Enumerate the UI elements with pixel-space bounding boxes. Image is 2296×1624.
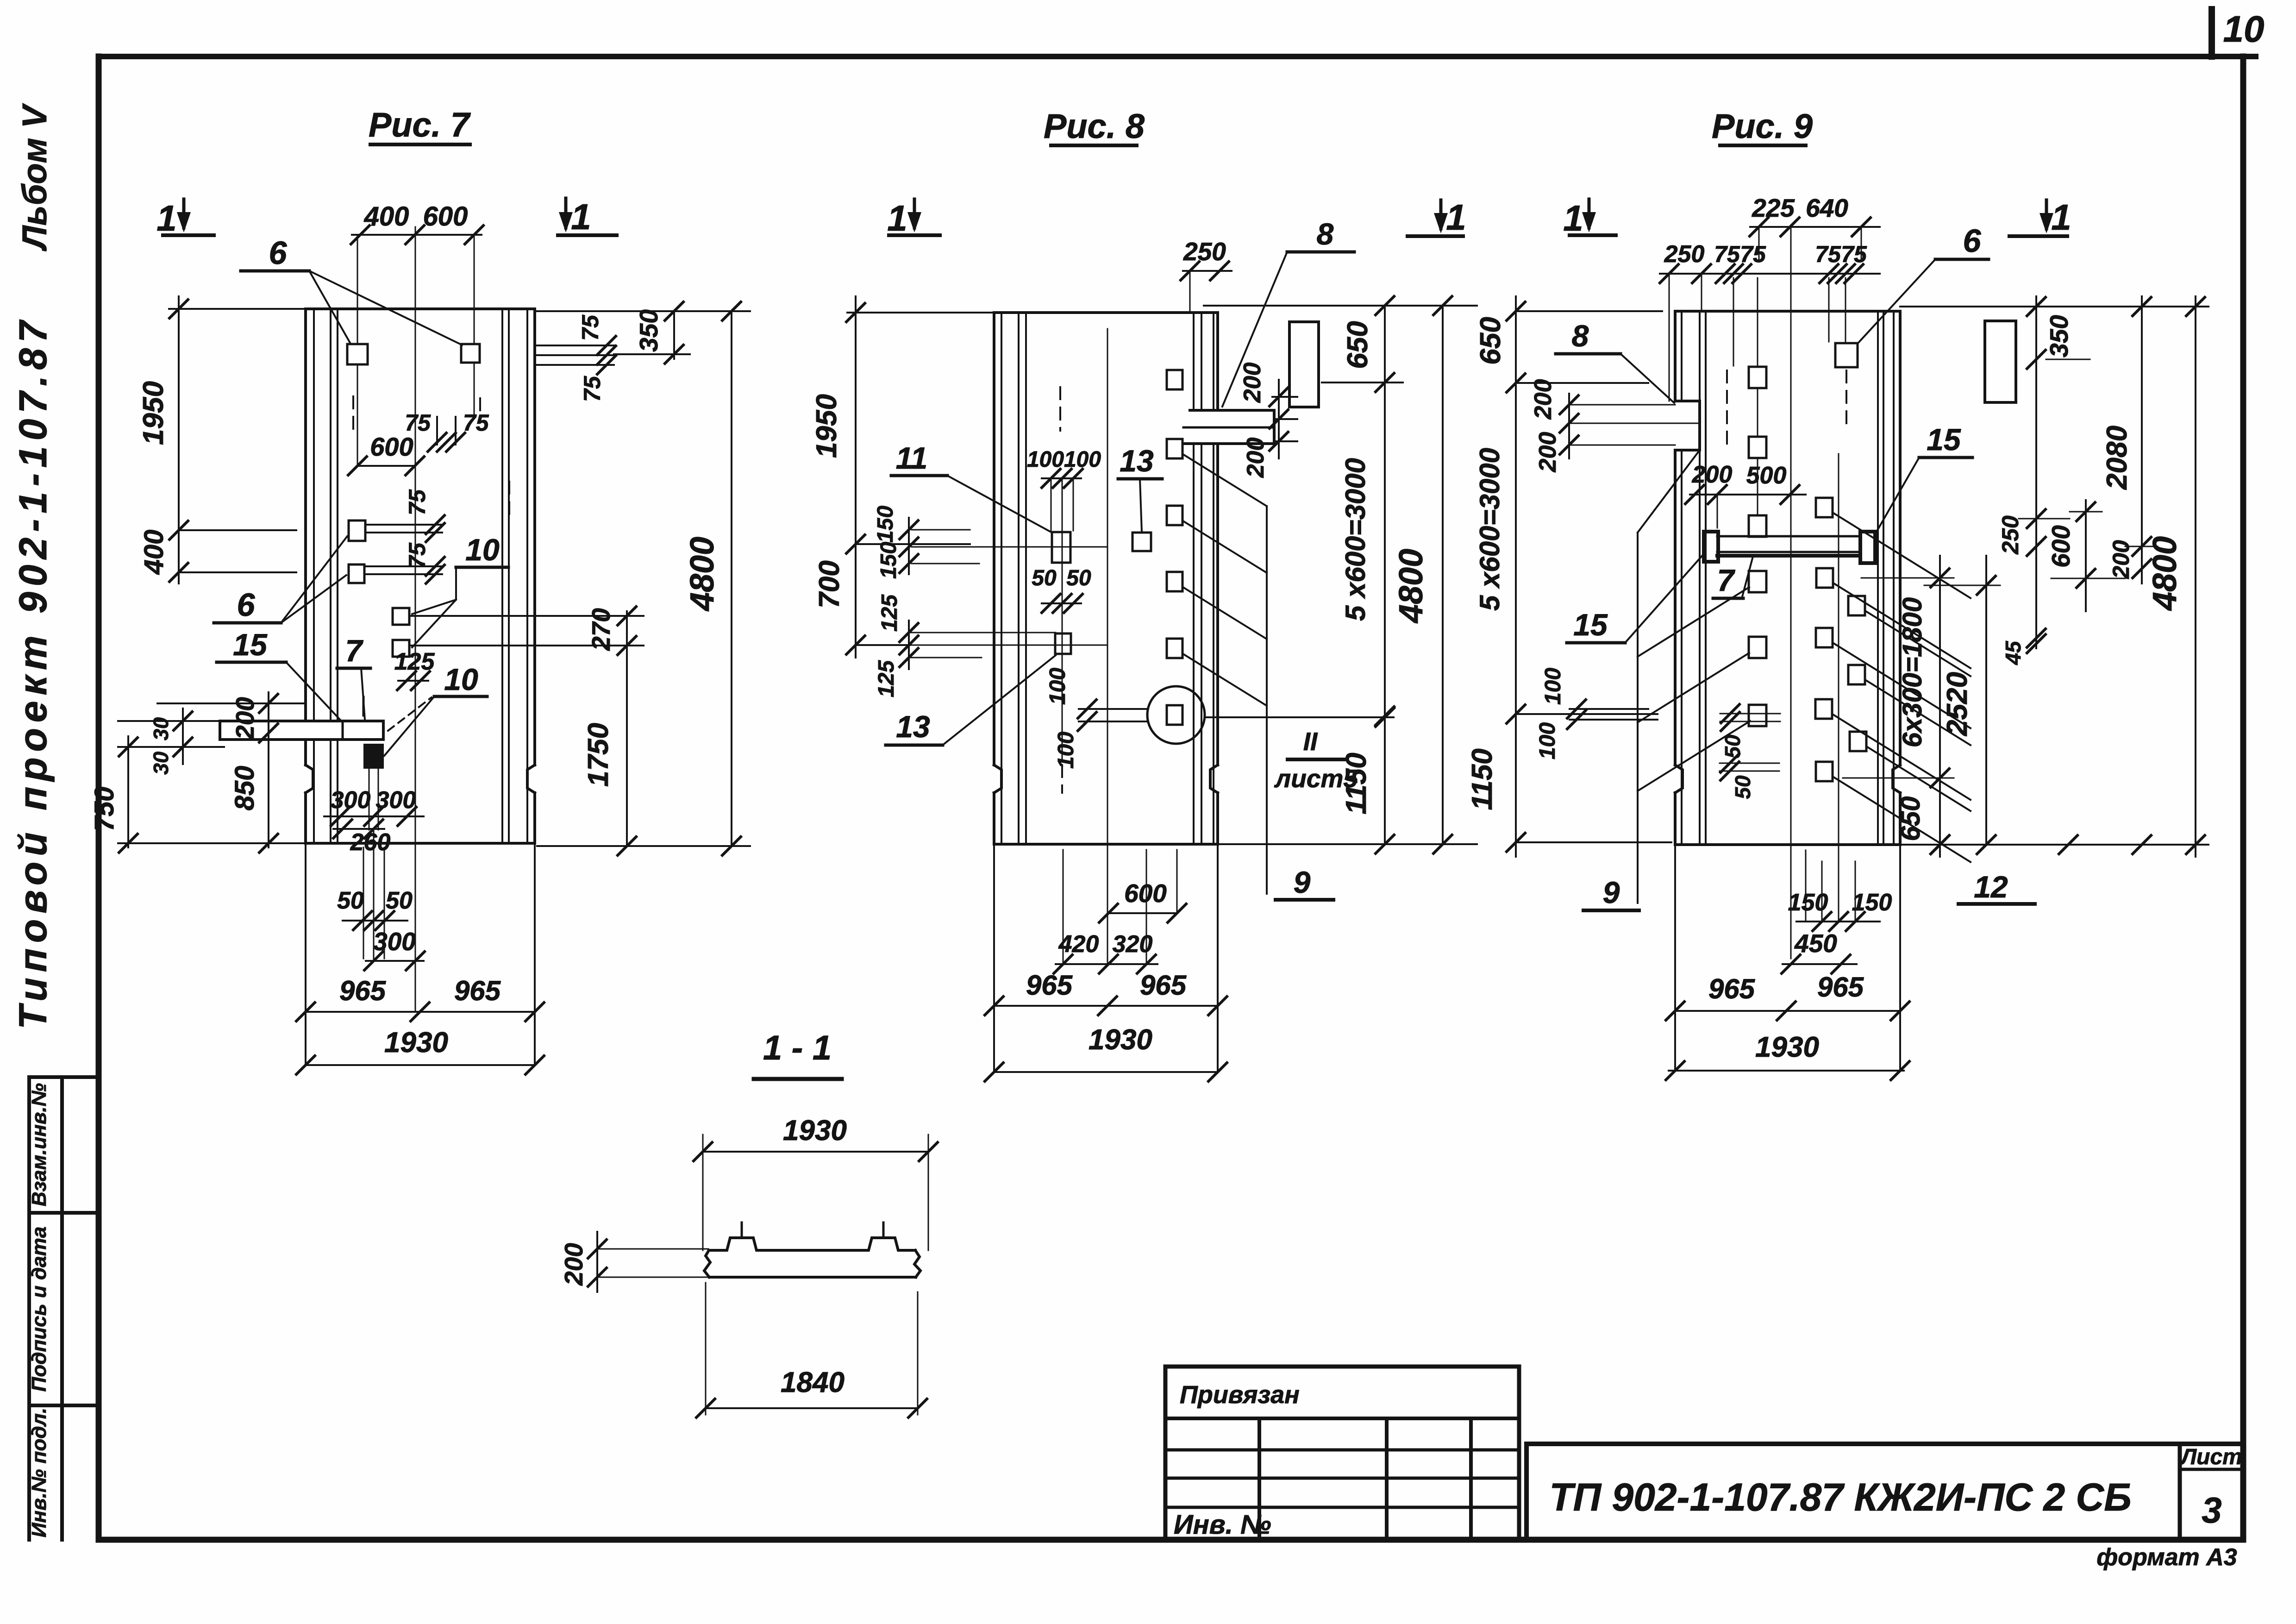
svg-text:50: 50 <box>337 887 364 914</box>
svg-text:1930: 1930 <box>783 1115 847 1147</box>
dims 200 200 at recess Ris9 <box>1568 394 1570 458</box>
svg-text:1: 1 <box>1563 198 1583 238</box>
dim 4800 Ris8 <box>1442 306 1444 844</box>
section mark 1 right Ris7 <box>564 198 568 228</box>
svg-text:10: 10 <box>465 533 500 567</box>
console axis dash <box>363 697 365 715</box>
svg-text:15: 15 <box>233 627 268 662</box>
connection bar pos.7 Ris9 <box>1717 535 1860 538</box>
svg-text:7: 7 <box>345 633 364 668</box>
svg-text:1930: 1930 <box>1089 1024 1152 1056</box>
dim 1930 section <box>702 1135 704 1250</box>
sheet frame top border <box>99 54 2256 59</box>
embed plates staircase Ris9 <box>1816 498 1833 517</box>
title block List column <box>2178 1444 2182 1540</box>
svg-text:13: 13 <box>1120 444 1153 478</box>
svg-text:965: 965 <box>1817 972 1864 1003</box>
svg-text:100: 100 <box>1045 668 1070 705</box>
svg-text:75: 75 <box>463 410 489 436</box>
svg-text:50: 50 <box>1032 566 1057 590</box>
dashed axes Ris9 <box>1726 370 1728 451</box>
svg-text:ТП 902-1-107.87 КЖ2И-ПС 2 СБ: ТП 902-1-107.87 КЖ2И-ПС 2 СБ <box>1549 1475 2131 1519</box>
svg-text:250: 250 <box>1997 515 2023 555</box>
svg-text:1840: 1840 <box>781 1367 845 1398</box>
svg-text:300: 300 <box>376 787 416 814</box>
svg-text:200: 200 <box>1239 363 1266 403</box>
svg-text:300: 300 <box>373 927 416 956</box>
slab cross-section profile <box>709 1238 915 1250</box>
dims 100 100 at circle Ris8 <box>1079 708 1147 710</box>
dim 2080 200 Ris9 <box>2141 296 2143 583</box>
sheet frame right border <box>2240 56 2246 1540</box>
svg-text:1950: 1950 <box>138 381 169 445</box>
svg-text:Подпись и дата: Подпись и дата <box>28 1227 50 1392</box>
svg-text:75: 75 <box>1841 241 1867 267</box>
svg-text:50: 50 <box>1731 775 1755 799</box>
svg-text:100: 100 <box>1535 722 1560 759</box>
svg-text:420: 420 <box>1058 931 1099 958</box>
dim 300 below panel Ris7 <box>366 960 424 962</box>
embed plate S5 <box>393 608 409 625</box>
dims 200 500 Ris9 <box>1690 494 1806 495</box>
detail circle around bottom embed <box>1147 686 1205 744</box>
panel Ris8 outline top and bottom <box>994 311 1218 314</box>
panel Ris8 right edge with console break <box>1216 313 1219 410</box>
embed black anchor plate <box>364 745 383 768</box>
svg-text:11: 11 <box>896 441 928 475</box>
embed plates right column Ris8 <box>1167 370 1182 389</box>
top dims 225 640 Ris9 <box>1750 226 1880 228</box>
svg-text:650: 650 <box>1896 796 1926 841</box>
svg-text:II: II <box>1303 727 1318 756</box>
panel Ris8 inner rib lines <box>1001 313 1002 844</box>
section mark 1 right Ris9 <box>2045 200 2048 229</box>
bottom dims 150 150 450 Ris9 <box>1805 850 1807 922</box>
embed plate S6 <box>393 640 409 657</box>
bottom extension Ris9 <box>1900 844 2208 846</box>
dim 1930 Ris7 <box>306 1064 535 1066</box>
console side plate rectangle Ris8 <box>1289 322 1319 407</box>
dims 50 50 Ris9 <box>1720 713 1780 715</box>
svg-text:600: 600 <box>423 201 468 232</box>
panel Ris9 centre extension line <box>1790 227 1792 959</box>
svg-text:650: 650 <box>1342 321 1374 369</box>
support console pos.8 on right edge <box>1190 409 1274 412</box>
svg-text:50: 50 <box>1066 566 1091 590</box>
svg-text:270: 270 <box>587 608 615 651</box>
panel Ris7 right edge with notch <box>533 309 536 765</box>
left lower dim chain 200 850 30 30 750 Ris7 <box>268 692 269 847</box>
svg-text:формат А3: формат А3 <box>2096 1544 2237 1571</box>
panel Ris8 centre extension line <box>1107 329 1108 964</box>
svg-text:1: 1 <box>156 198 176 238</box>
rebar stubs on section <box>741 1223 743 1238</box>
svg-text:30: 30 <box>149 752 173 775</box>
svg-text:75: 75 <box>405 410 431 436</box>
title block small table column lines <box>1257 1418 1261 1540</box>
dim 2520 Ris9 <box>1985 556 1987 845</box>
svg-text:6: 6 <box>237 587 256 623</box>
panel Ris7 outline top and bottom <box>306 307 535 310</box>
dim 600 Ris9 <box>2085 500 2087 611</box>
dim 6x300 1800 and 650 Ris9 <box>1939 556 1941 857</box>
sheet frame bottom border <box>99 1537 2243 1543</box>
svg-text:500: 500 <box>1746 462 1787 489</box>
svg-text:6: 6 <box>1963 223 1982 259</box>
inner dims 75 75 at S3 S4 <box>366 524 442 526</box>
svg-text:1: 1 <box>887 198 907 238</box>
right dims 350 75 75 Ris7 <box>535 310 750 312</box>
svg-text:850: 850 <box>230 766 260 811</box>
panel Ris9 inner rib lines <box>1681 311 1683 401</box>
svg-text:12: 12 <box>1974 870 2008 904</box>
panel Ris7 inner rib lines <box>313 309 315 843</box>
left dim chain 650 5x600 1150 Ris9 <box>1515 296 1517 857</box>
panel Ris9 outline top and bottom <box>1675 310 1900 313</box>
svg-text:Инв.№ подл.: Инв.№ подл. <box>28 1408 50 1537</box>
leader fan staircase to pos.12 <box>1833 513 1971 598</box>
svg-text:965: 965 <box>1140 970 1187 1001</box>
title block main box <box>1526 1444 2243 1540</box>
svg-text:15: 15 <box>1927 422 1961 457</box>
svg-text:1150: 1150 <box>1466 748 1498 810</box>
view note II list5 <box>1205 716 1394 718</box>
extension line right staircase Ris9 <box>1838 454 1839 922</box>
right chain 350 Ris9 <box>1900 306 2208 307</box>
top-right small dims 75 75 Ris7 <box>436 417 438 445</box>
svg-text:75: 75 <box>404 489 430 515</box>
svg-text:600: 600 <box>370 432 413 461</box>
svg-text:200: 200 <box>1692 461 1733 488</box>
svg-text:100: 100 <box>1541 668 1565 705</box>
embed plate mid S3 <box>349 520 365 541</box>
extension line through embed S2 <box>474 235 475 417</box>
svg-text:4800: 4800 <box>684 537 721 612</box>
svg-text:Рис. 8: Рис. 8 <box>1044 107 1145 145</box>
svg-text:600: 600 <box>2046 525 2075 568</box>
svg-text:100: 100 <box>1027 447 1064 472</box>
svg-text:1750: 1750 <box>582 723 614 787</box>
svg-text:1: 1 <box>1446 197 1466 238</box>
right dim chain 650 5x600 1150 Ris8 <box>1204 305 1477 307</box>
svg-text:700: 700 <box>813 560 845 608</box>
svg-text:1: 1 <box>2051 197 2071 238</box>
svg-text:100: 100 <box>1054 732 1078 769</box>
svg-text:Лист: Лист <box>2180 1445 2242 1469</box>
dim 270 Ris7 <box>409 615 644 617</box>
dim 200 section <box>596 1232 598 1292</box>
svg-text:150: 150 <box>1852 889 1892 916</box>
dims 200 200 at console Ris8 <box>1278 380 1280 458</box>
section mark 1 right Ris8 <box>1439 200 1443 229</box>
svg-text:4800: 4800 <box>2146 536 2183 611</box>
svg-text:350: 350 <box>634 309 663 352</box>
svg-text:75: 75 <box>579 376 605 402</box>
svg-text:1930: 1930 <box>384 1027 448 1059</box>
column axis line through embeds Ris8 <box>1062 478 1063 762</box>
dashed axis Ris8 <box>1059 387 1061 431</box>
extension line through left embeds Ris9 <box>1757 278 1758 523</box>
inner dim 600 Ris7 <box>357 465 415 467</box>
svg-text:5 х600=3000: 5 х600=3000 <box>1474 448 1505 611</box>
svg-text:45: 45 <box>2001 640 2025 665</box>
svg-text:5 х600=3000: 5 х600=3000 <box>1340 458 1371 621</box>
support console pos.7/15 <box>220 721 383 740</box>
dims 50 50 below panel Ris7 <box>363 847 364 959</box>
svg-text:Взам.инв.№: Взам.инв.№ <box>28 1083 50 1206</box>
svg-text:750: 750 <box>89 787 119 832</box>
svg-text:400: 400 <box>139 530 169 575</box>
svg-text:320: 320 <box>1113 931 1153 958</box>
leader fan from right embeds to pos.9 <box>1183 454 1267 506</box>
dims 125 125 Ris8 <box>908 621 910 669</box>
dim 250 top Ris8 <box>1183 270 1232 272</box>
svg-text:75: 75 <box>577 314 603 341</box>
top dimension 400 600 Ris7 <box>352 234 482 236</box>
bottom extension to 4800 line Ris7 <box>537 845 750 847</box>
svg-text:350: 350 <box>2045 315 2073 357</box>
embed plate mid S4 <box>349 564 364 583</box>
svg-text:150: 150 <box>873 506 898 543</box>
title block small table row lines <box>1165 1417 1519 1420</box>
svg-text:10: 10 <box>2223 8 2265 50</box>
top dims 250 75 75 75 75 Ris9 <box>1660 273 1880 275</box>
title block small table outline <box>1165 1367 1519 1540</box>
svg-text:600: 600 <box>1124 879 1167 908</box>
embed plates left column Ris9 <box>1749 367 1766 388</box>
svg-text:1950: 1950 <box>811 394 843 458</box>
dims 300 300 260 below anchor <box>369 768 370 830</box>
svg-text:225: 225 <box>1752 194 1795 222</box>
svg-text:640: 640 <box>1806 194 1848 222</box>
svg-text:2080: 2080 <box>2101 426 2133 490</box>
extension line through embed S1 <box>357 235 358 466</box>
svg-text:300: 300 <box>331 787 371 814</box>
svg-text:Типовой проект 902-1-107.87: Типовой проект 902-1-107.87 <box>11 315 55 1029</box>
svg-text:7: 7 <box>1717 563 1736 597</box>
dim 1750 Ris7 <box>626 646 628 846</box>
svg-text:Привязан: Привязан <box>1180 1381 1300 1409</box>
svg-text:10: 10 <box>444 662 478 696</box>
svg-text:965: 965 <box>454 975 501 1006</box>
dim 4800 Ris9 <box>2195 296 2196 857</box>
left dim chain 1950 400 Ris7 <box>169 308 306 310</box>
svg-text:Рис. 9: Рис. 9 <box>1712 107 1813 145</box>
side plate rectangle Ris9 <box>1985 321 2016 402</box>
embed plate 6 top-left <box>347 344 368 364</box>
svg-text:965: 965 <box>1708 973 1756 1004</box>
panel Ris7 left edge with notch <box>304 309 307 765</box>
svg-text:965: 965 <box>1026 970 1073 1001</box>
dims 150 150 Ris8 <box>908 518 910 574</box>
dims 100 100 left Ris9 <box>1570 708 1648 710</box>
panel Ris9 right edge with notch <box>1899 311 1902 765</box>
svg-text:150: 150 <box>1788 889 1828 916</box>
svg-text:75: 75 <box>404 542 430 569</box>
page number tick top right <box>2208 9 2215 56</box>
svg-text:8: 8 <box>1572 319 1589 353</box>
svg-text:Рис. 7: Рис. 7 <box>369 106 471 144</box>
svg-text:1930: 1930 <box>1755 1031 1819 1063</box>
svg-text:450: 450 <box>1794 929 1837 958</box>
svg-text:2520: 2520 <box>1941 672 1973 736</box>
dim 1930 Ris9 <box>1669 1070 1904 1072</box>
embed plate pos.11 <box>1052 532 1070 563</box>
dims 965 965 Ris7 <box>305 843 307 1065</box>
svg-text:150: 150 <box>876 542 901 579</box>
svg-text:15: 15 <box>1573 608 1608 642</box>
svg-text:200: 200 <box>559 1243 588 1286</box>
bar end plate right pos.15 <box>1860 532 1875 563</box>
svg-text:13: 13 <box>896 709 930 744</box>
embed plate 6 top-right <box>461 344 480 363</box>
dims 250 45 Ris9 <box>2027 509 2046 528</box>
svg-text:50: 50 <box>1720 734 1745 759</box>
svg-text:Инв. №: Инв. № <box>1174 1510 1271 1540</box>
svg-text:9: 9 <box>1603 875 1620 909</box>
svg-text:8: 8 <box>1317 217 1334 251</box>
svg-text:6: 6 <box>269 235 288 271</box>
bar end plate left pos.15 <box>1704 532 1718 562</box>
svg-text:250: 250 <box>1664 241 1705 268</box>
svg-text:125: 125 <box>877 594 902 632</box>
dims 965 965 Ris9 <box>1674 845 1676 1071</box>
svg-text:75: 75 <box>1714 241 1740 267</box>
leader fan left embeds to pos.9 Ris9 <box>1638 587 1749 657</box>
svg-text:75: 75 <box>1815 241 1841 267</box>
svg-text:200: 200 <box>1242 438 1269 478</box>
svg-text:9: 9 <box>1294 865 1311 899</box>
svg-text:1150: 1150 <box>1340 752 1372 814</box>
svg-text:Льбом V: Льбом V <box>15 103 54 251</box>
svg-text:200: 200 <box>1530 379 1557 420</box>
svg-text:200: 200 <box>1534 432 1561 473</box>
svg-text:6х300=1800: 6х300=1800 <box>1897 597 1927 747</box>
svg-text:1: 1 <box>571 196 591 237</box>
sheet frame left border <box>96 56 102 1540</box>
panel Ris7 centre extension line <box>415 227 416 1012</box>
dim 4800 Ris7 <box>731 311 732 846</box>
svg-text:1 - 1: 1 - 1 <box>763 1028 832 1067</box>
svg-text:4800: 4800 <box>1393 549 1430 624</box>
left margin box column lines <box>27 1077 31 1540</box>
panel Ris9 left edge with recess and notch <box>1674 311 1677 401</box>
bottom dims Ris8 <box>1063 850 1064 964</box>
embed plate pos.6 top Ris9 <box>1835 343 1858 367</box>
svg-text:250: 250 <box>1183 237 1226 266</box>
dashed axis marks Ris7 <box>352 396 354 430</box>
svg-text:400: 400 <box>364 201 409 232</box>
svg-text:125: 125 <box>874 660 899 697</box>
svg-text:650: 650 <box>1475 317 1507 364</box>
svg-text:3: 3 <box>2202 1490 2221 1530</box>
svg-text:965: 965 <box>339 975 387 1006</box>
embed plate pos.13 top <box>1132 533 1151 551</box>
embed plate lower-left Ris8 <box>1055 633 1071 654</box>
left dim chain 1950 700 Ris8 <box>847 312 994 314</box>
svg-text:50: 50 <box>386 887 413 914</box>
svg-text:75: 75 <box>1740 241 1766 267</box>
panel Ris8 left edge with notch <box>993 313 995 765</box>
dim 1840 section <box>705 1283 707 1415</box>
